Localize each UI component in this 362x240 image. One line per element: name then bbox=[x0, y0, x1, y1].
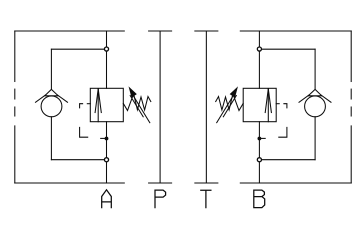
label A (port A) bbox=[102, 190, 112, 208]
relief valve V1 adjustment arrowhead bbox=[130, 88, 137, 97]
check valve CV2 seat line right bbox=[321, 95, 331, 102]
enclosure boundary left edge (dash-gap pattern) bbox=[14, 31, 16, 183]
relief valve V1 adjustment arrow shaft bbox=[131, 92, 150, 123]
relief valve V1 body box bbox=[90, 88, 123, 121]
label T (port T) bbox=[201, 190, 211, 207]
label P (port P) bbox=[155, 190, 166, 208]
port T bottom port bar bbox=[195, 182, 218, 184]
wire from node B1 to check valve CV2 top bbox=[262, 49, 316, 89]
pilot line V2 dash stub at node B3 bbox=[261, 137, 265, 139]
check valve CV2 seat line left bbox=[299, 95, 309, 102]
wire from check valve CV1 bottom to node A2 bbox=[51, 117, 104, 160]
relief valve V2 adjustable spring zigzag bbox=[216, 94, 244, 111]
enclosure boundary top-right segment bbox=[240, 30, 351, 32]
node A2 junction circle on port A line bbox=[104, 158, 108, 162]
node A3 junction dot on port A line bbox=[105, 137, 109, 141]
pilot line V1 dash stub at valve box bbox=[87, 103, 90, 105]
port B line upper segment bbox=[258, 31, 260, 88]
label B (port B) bbox=[254, 190, 265, 208]
relief valve V2 arrowhead hatch stroke bbox=[223, 96, 236, 117]
enclosure boundary bottom-left segment bbox=[15, 182, 125, 184]
port P top cap bar bbox=[149, 30, 172, 32]
port T line bbox=[205, 31, 207, 183]
relief valve V1 flow arrow bbox=[95, 89, 101, 122]
pilot line V2 corner dash lower (L-shape) bbox=[279, 127, 287, 137]
node B2 junction circle on port B line bbox=[257, 158, 261, 162]
enclosure boundary right edge (dash-gap pattern) bbox=[350, 31, 352, 183]
relief valve V1 adjustable spring zigzag bbox=[123, 94, 151, 111]
port A line lower segment bbox=[106, 122, 108, 183]
pilot line V1 corner dash upper bbox=[80, 104, 83, 108]
relief valve V2 adjustment arrowhead bbox=[231, 88, 238, 97]
node B3 junction dot on port B line bbox=[258, 137, 262, 141]
port T top cap bar bbox=[195, 30, 218, 32]
pilot line V2 dash stub at valve box bbox=[276, 103, 279, 105]
port B line lower segment bbox=[258, 122, 260, 183]
pilot line V1 dash stub at node A3 bbox=[101, 137, 105, 139]
relief valve V2 body box bbox=[243, 88, 276, 121]
check valve CV1 poppet triangle bbox=[45, 89, 58, 95]
port P bottom port bar bbox=[149, 182, 172, 184]
check valve CV1 ball circle bbox=[41, 96, 62, 117]
check valve CV2 ball circle bbox=[305, 96, 326, 117]
pilot line V1 corner dash lower (L-shape) bbox=[80, 127, 88, 137]
relief valve V2 adjustment arrow shaft bbox=[217, 92, 236, 123]
relief valve V1 arrowhead hatch stroke bbox=[130, 96, 143, 117]
wire from node A1 to check valve CV1 top bbox=[51, 49, 104, 89]
relief valve V2 flow arrow bbox=[265, 89, 271, 122]
port A line upper segment bbox=[106, 31, 108, 88]
wire from check valve CV2 bottom to node B2 bbox=[262, 117, 316, 160]
pilot line V2 corner dash upper bbox=[284, 104, 287, 108]
check valve CV1 seat line left bbox=[36, 95, 46, 102]
port P line bbox=[159, 31, 161, 183]
enclosure boundary bottom-right segment bbox=[240, 182, 351, 184]
check valve CV1 seat line right bbox=[58, 95, 68, 102]
node B1 junction circle on port B line bbox=[257, 47, 261, 51]
check valve CV2 poppet triangle bbox=[308, 89, 321, 95]
node A1 junction circle on port A line bbox=[104, 47, 108, 51]
enclosure boundary top-left segment bbox=[15, 30, 125, 32]
